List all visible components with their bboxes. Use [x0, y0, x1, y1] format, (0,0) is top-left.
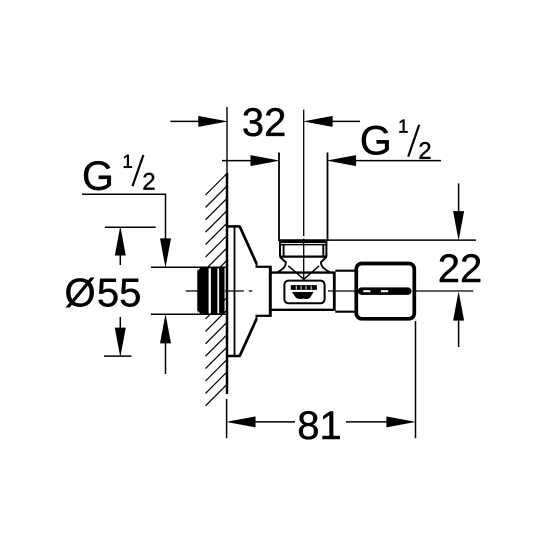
neck between body and handle — [335, 271, 355, 312]
dimension 22: up arrow — [453, 293, 463, 348]
dimension G1/2 top: right arrow — [328, 155, 441, 165]
D55 top extension line — [105, 226, 156, 228]
dimension D55: text — [66, 278, 94, 308]
dimension 81: left extension line — [226, 399, 228, 438]
dimension 81: right arrow — [346, 417, 415, 427]
wall face line — [226, 173, 229, 394]
compression nut — [279, 241, 327, 263]
label G 1/2 (top right) — [362, 120, 431, 159]
escutcheon ring front faces — [256, 263, 258, 268]
thread bottom edge + extension line — [151, 313, 226, 315]
collar top — [256, 266, 272, 268]
horizontal center line (valve axis) — [186, 290, 474, 292]
leader vertical + down arrow to thread top — [160, 194, 170, 267]
handle — [356, 264, 414, 319]
outlet pipe right edge / extension line — [327, 153, 329, 242]
GROHE wordmark — [291, 285, 317, 289]
dimension 22: down arrow — [453, 183, 463, 239]
D55 bottom extension line — [104, 355, 132, 357]
collar bottom — [256, 315, 272, 317]
outlet neck flare right — [321, 262, 330, 273]
GROHE logo plate — [284, 281, 324, 304]
dimension 32: right arrow — [305, 116, 361, 126]
dimension 22: text — [440, 254, 480, 282]
escutcheon top edge — [227, 225, 241, 228]
outlet pipe left edge / extension line — [278, 153, 280, 242]
dimension 32: text — [243, 108, 284, 136]
vertical center line (outlet axis) — [303, 110, 305, 280]
escutcheon bottom edge — [227, 355, 241, 358]
dimension 81: right extension line — [415, 321, 417, 438]
dimension G1/2 top: left arrow — [222, 155, 279, 165]
collar front face — [269, 266, 272, 317]
valve body outline — [270, 273, 334, 310]
V chamfer on body top — [288, 266, 319, 280]
label G 1/2 (left) — [84, 155, 154, 190]
thread top edge + extension line — [151, 266, 226, 268]
outlet neck flare left — [278, 262, 286, 273]
D55 dimension line with down arrow — [115, 317, 125, 356]
dimension 81: text — [299, 411, 340, 439]
up arrow to thread bottom — [160, 315, 170, 374]
D55 dimension line with up arrow — [115, 227, 125, 265]
male thread G1/2 (left inlet) — [198, 267, 225, 314]
escutcheon cone top — [240, 226, 257, 263]
wall hatching — [206, 174, 228, 406]
dimension 81: left arrow — [227, 417, 295, 427]
escutcheon cone bottom — [240, 319, 257, 356]
label G 1/2 left: underline leader — [82, 193, 166, 195]
dimension 22: top extension line — [328, 239, 476, 241]
GROHE laurel emblem — [292, 292, 313, 299]
dimension 32: left arrow — [170, 116, 226, 126]
wall face extension line up to 32-dimension — [226, 107, 228, 173]
handle groove bar — [358, 288, 411, 295]
valve body right edge — [333, 272, 336, 311]
escutcheon rim face line — [234, 226, 236, 356]
